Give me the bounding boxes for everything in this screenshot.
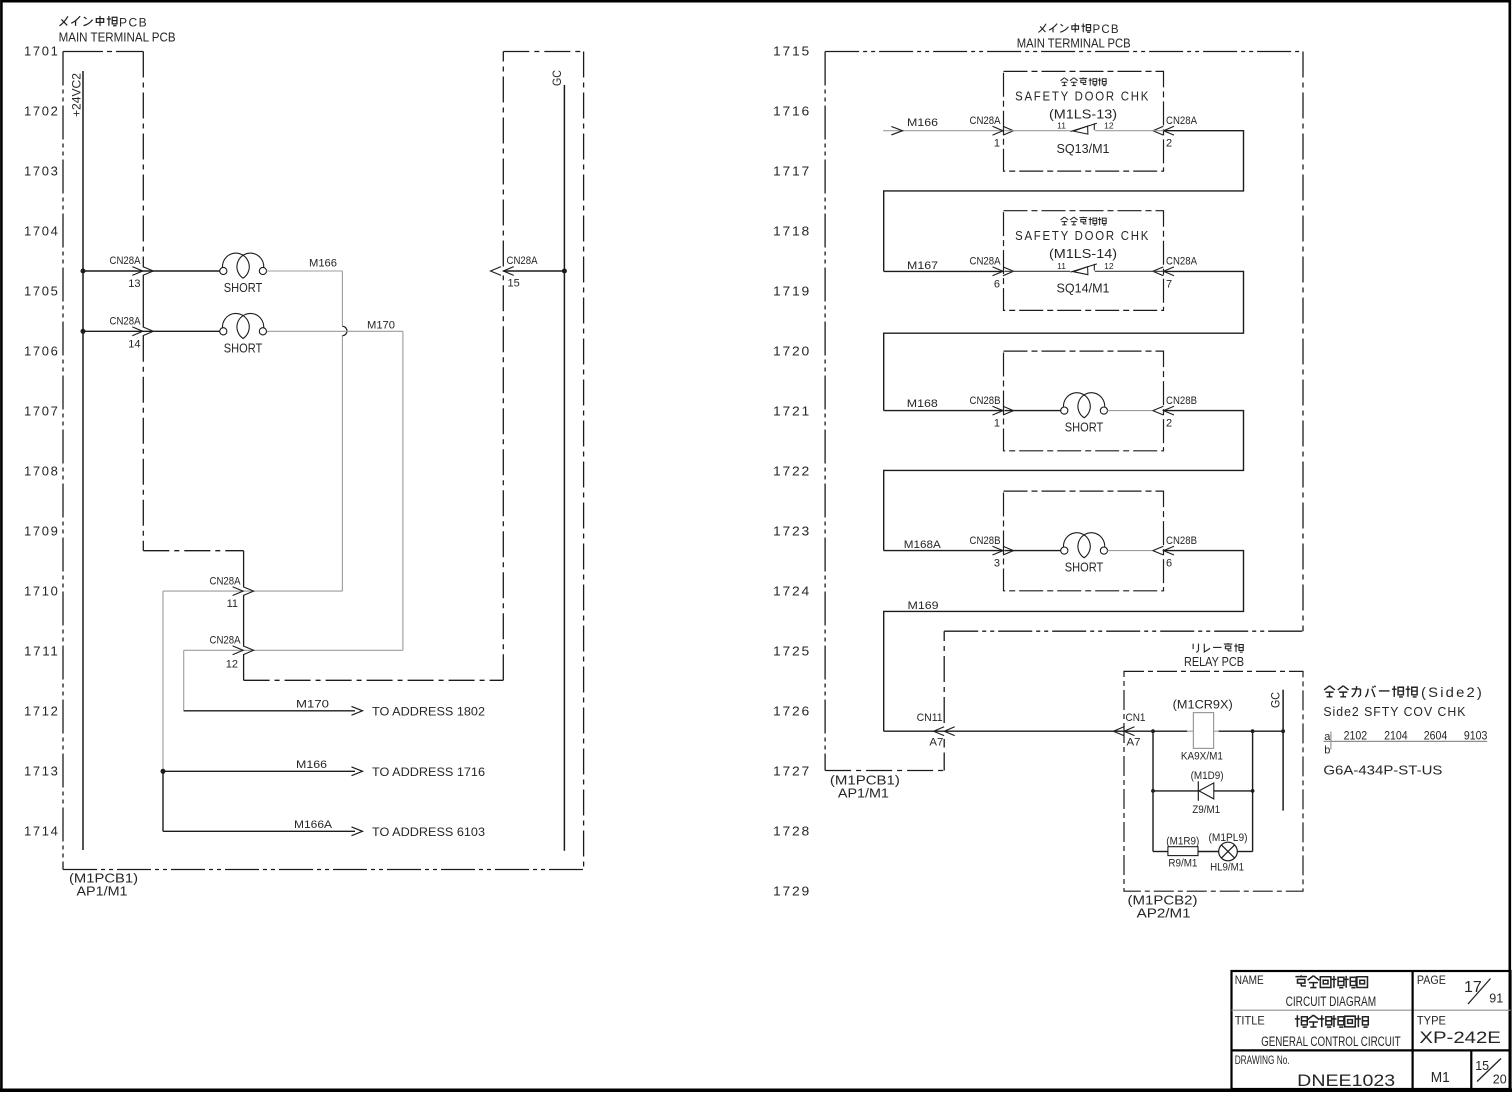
- svg-text:1702: 1702: [24, 105, 60, 119]
- svg-text:A7: A7: [1127, 737, 1141, 749]
- svg-text:1714: 1714: [24, 825, 60, 839]
- wire M170 to address 1802: [184, 710, 355, 712]
- svg-text:AP1/M1: AP1/M1: [838, 786, 889, 800]
- svg-text:2: 2: [1166, 418, 1172, 430]
- svg-text:CN28A: CN28A: [210, 635, 242, 647]
- title block: [1232, 971, 1511, 1089]
- svg-text:11: 11: [1057, 120, 1066, 130]
- label RELAY PCB: [1193, 644, 1198, 653]
- svg-text:1721: 1721: [773, 405, 811, 419]
- limit switch contact SQ14/M1 pins 11-12: [1005, 270, 1071, 272]
- wire relay left branch: [1152, 731, 1154, 851]
- svg-text:b: b: [1324, 744, 1330, 756]
- connector CN28B pin 6: [1153, 546, 1164, 555]
- svg-text:1707: 1707: [24, 405, 60, 419]
- svg-text:1719: 1719: [773, 285, 811, 299]
- svg-text:1704: 1704: [24, 225, 60, 239]
- wire hop M166 over M170: [342, 326, 347, 335]
- svg-text:CN28A: CN28A: [970, 115, 1002, 127]
- jumper SHORT: [1005, 550, 1061, 552]
- svg-text:SHORT: SHORT: [224, 281, 263, 295]
- PCB boundary M1PCB1 left (MAIN TERMINAL PCB): [63, 51, 143, 53]
- svg-text:M166A: M166A: [294, 819, 333, 831]
- wire M170 (gray) from SHORT2 to CN28A12: [267, 330, 403, 332]
- svg-text:1729: 1729: [773, 885, 811, 899]
- svg-text:12: 12: [1104, 120, 1114, 130]
- svg-text:2: 2: [1166, 138, 1172, 150]
- label MAIN TERMINAL PCB left: [59, 16, 67, 26]
- svg-text:M169: M169: [908, 600, 939, 612]
- svg-text:SHORT: SHORT: [224, 341, 263, 355]
- svg-text:SAFETY DOOR CHK: SAFETY DOOR CHK: [1015, 228, 1150, 243]
- svg-text:TO ADDRESS 1716: TO ADDRESS 1716: [372, 765, 485, 779]
- svg-text:9103: 9103: [1464, 728, 1488, 742]
- svg-text:12: 12: [1104, 261, 1114, 271]
- node GC / CN28A15: [562, 269, 567, 274]
- svg-text:1708: 1708: [24, 465, 60, 479]
- svg-text:M167: M167: [907, 260, 938, 272]
- svg-text:CN28A: CN28A: [1166, 115, 1198, 127]
- svg-text:SQ14/M1: SQ14/M1: [1057, 280, 1110, 295]
- svg-text:1713: 1713: [24, 765, 60, 779]
- svg-text:CN28B: CN28B: [1166, 535, 1197, 547]
- wire relay main row: [1124, 730, 1187, 732]
- svg-text:CN28A: CN28A: [110, 316, 142, 328]
- svg-text:CN28A: CN28A: [110, 255, 142, 267]
- svg-text:11: 11: [227, 598, 238, 610]
- svg-text:1710: 1710: [24, 585, 60, 599]
- svg-text:13: 13: [128, 278, 140, 290]
- wire M167 feed into SQ14: [884, 270, 1004, 272]
- svg-text:CN28A: CN28A: [210, 575, 242, 587]
- connector CN28A pin 15: [503, 270, 564, 272]
- svg-text:1728: 1728: [773, 825, 811, 839]
- svg-text:CN28B: CN28B: [970, 395, 1001, 407]
- jumper SHORT 2: [220, 328, 227, 335]
- wire M166A to address 6103: [162, 771, 164, 831]
- wire M166 (gray) from SHORT1 to CN28A11 to address rows: [267, 270, 343, 272]
- svg-text:PCB: PCB: [119, 16, 148, 30]
- wire +24VC2 to SHORT jumper 2: [83, 330, 220, 332]
- connector CN28A pin 11: [233, 587, 244, 596]
- svg-text:M170: M170: [367, 319, 395, 331]
- svg-text:2104: 2104: [1384, 728, 1408, 742]
- diode Z9/M1 (M1D9): [1197, 781, 1199, 801]
- svg-text:20: 20: [1493, 1072, 1507, 1086]
- wire SHORT4 return to M169: [884, 551, 1244, 732]
- svg-text:AP1/M1: AP1/M1: [77, 885, 128, 899]
- svg-text:CIRCUIT DIAGRAM: CIRCUIT DIAGRAM: [1286, 994, 1377, 1009]
- svg-text:HL9/M1: HL9/M1: [1210, 862, 1244, 874]
- node +24VC2 / CN28A13: [81, 269, 86, 274]
- svg-text:DRAWING No.: DRAWING No.: [1235, 1053, 1290, 1067]
- svg-text:1717: 1717: [773, 165, 811, 179]
- svg-text:CN28B: CN28B: [970, 535, 1001, 547]
- svg-text:M168: M168: [907, 398, 938, 410]
- svg-text:G6A-434P-ST-US: G6A-434P-ST-US: [1323, 764, 1442, 778]
- wire M168A feed into SHORT4: [884, 550, 1004, 552]
- jumper SHORT: [1005, 410, 1061, 412]
- svg-text:XP-242E: XP-242E: [1419, 1028, 1501, 1047]
- label MAIN TERMINAL PCB right: [1038, 24, 1046, 33]
- svg-text:7: 7: [1166, 278, 1172, 290]
- svg-text:1715: 1715: [773, 45, 811, 59]
- lamp HL9/M1 (M1PL9): [1219, 842, 1238, 861]
- wire SQ14 return to M168: [884, 271, 1244, 410]
- connector CN28A pin 6: [993, 267, 1004, 276]
- svg-text:PAGE: PAGE: [1417, 973, 1446, 987]
- svg-text:3: 3: [994, 558, 1000, 570]
- svg-text:GC: GC: [552, 70, 564, 86]
- jumper SHORT 4 box: [1004, 491, 1164, 591]
- svg-text:1711: 1711: [24, 645, 60, 659]
- svg-text:2604: 2604: [1424, 728, 1448, 742]
- connector CN28A pin 13: [132, 267, 143, 276]
- switch box SQ14/M1 (SAFETY DOOR CHK): [1004, 211, 1164, 311]
- svg-text:R9/M1: R9/M1: [1168, 858, 1197, 870]
- svg-text:6: 6: [994, 278, 1000, 290]
- svg-text:MAIN TERMINAL PCB: MAIN TERMINAL PCB: [1017, 37, 1131, 51]
- svg-text:(M1CR9X): (M1CR9X): [1173, 699, 1233, 711]
- jumper SHORT 1: [220, 267, 227, 274]
- wire diode row: [1153, 790, 1253, 792]
- svg-text:+24VC2: +24VC2: [72, 73, 84, 117]
- svg-text:6: 6: [1166, 558, 1172, 570]
- node relay row GC: [1281, 729, 1285, 733]
- svg-text:1716: 1716: [773, 105, 811, 119]
- svg-text:(M1PCB2): (M1PCB2): [1128, 893, 1198, 907]
- svg-text:PCB: PCB: [1093, 24, 1120, 36]
- svg-text:MAIN TERMINAL PCB: MAIN TERMINAL PCB: [59, 31, 176, 45]
- connector CN28A pin 12: [233, 646, 244, 655]
- svg-text:Z9/M1: Z9/M1: [1192, 804, 1220, 816]
- svg-text:1712: 1712: [24, 705, 60, 719]
- svg-text:12: 12: [226, 659, 238, 671]
- node relay row B: [1251, 729, 1255, 733]
- PCB boundary M1PCB2 RELAY PCB: [1124, 671, 1303, 891]
- svg-text:AP2/M1: AP2/M1: [1137, 906, 1191, 920]
- svg-text:(Side2): (Side2): [1421, 685, 1484, 700]
- svg-text:1726: 1726: [773, 705, 811, 719]
- svg-text:TO ADDRESS 1802: TO ADDRESS 1802: [372, 704, 485, 718]
- node +24VC2 / CN28A14: [81, 329, 86, 334]
- svg-text:SHORT: SHORT: [1065, 561, 1104, 575]
- connector CN28B pin 2: [1153, 406, 1164, 415]
- wire +24VC2 to SHORT jumper 1: [83, 270, 220, 272]
- svg-text:2102: 2102: [1344, 728, 1368, 742]
- connector CN28B pin 1: [993, 406, 1004, 415]
- label Side2 SFTY COV CHK: [1324, 686, 1335, 697]
- node address column right 1715-1729: [773, 45, 811, 899]
- svg-text:M166: M166: [907, 117, 938, 129]
- node diode right: [1251, 789, 1255, 793]
- node diode left: [1151, 789, 1155, 793]
- svg-text:CN11: CN11: [917, 712, 943, 724]
- wire M166 to address 1716: [163, 770, 355, 772]
- svg-text:CN1: CN1: [1126, 712, 1146, 724]
- connector CN28A pin 7: [1153, 267, 1164, 276]
- svg-text:(M1PCB1): (M1PCB1): [69, 872, 138, 886]
- resistor R9/M1 (M1R9): [1168, 847, 1198, 856]
- svg-text:M166: M166: [296, 759, 327, 771]
- jumper SHORT 3 box: [1004, 351, 1164, 451]
- svg-text:1701: 1701: [24, 45, 60, 59]
- svg-text:(M1PL9): (M1PL9): [1209, 832, 1248, 844]
- GC rail left: [563, 85, 565, 851]
- svg-text:RELAY PCB: RELAY PCB: [1184, 655, 1244, 669]
- svg-text:GC: GC: [1271, 692, 1283, 708]
- svg-text:KA9X/M1: KA9X/M1: [1181, 750, 1223, 762]
- svg-text:1: 1: [994, 418, 1000, 430]
- svg-text:M168A: M168A: [904, 539, 942, 551]
- wire M168 feed into SHORT3: [884, 410, 1004, 412]
- svg-text:1: 1: [994, 138, 1000, 150]
- svg-text:DNEE1023: DNEE1023: [1297, 1071, 1395, 1090]
- connector CN28A pin 2: [1153, 126, 1164, 135]
- relay coil KA9X/M1 (M1CR9X): [1193, 713, 1213, 749]
- +24VC2 power rail: [82, 71, 84, 850]
- svg-text:CN28A: CN28A: [507, 255, 539, 267]
- svg-text:1720: 1720: [773, 345, 811, 359]
- svg-text:15: 15: [508, 278, 520, 290]
- svg-text:TITLE: TITLE: [1235, 1014, 1265, 1028]
- connector CN28A pin 1: [993, 126, 1004, 135]
- svg-text:A7: A7: [929, 737, 943, 749]
- svg-text:SHORT: SHORT: [1065, 421, 1104, 435]
- wire M169 to CN11/CN1: [884, 730, 1124, 732]
- svg-text:14: 14: [128, 338, 140, 350]
- limit switch contact SQ13/M1 pins 11-12: [1005, 130, 1071, 132]
- svg-text:1725: 1725: [773, 645, 811, 659]
- svg-text:1703: 1703: [24, 165, 60, 179]
- PCB boundary M1PCB1 right (MAIN TERMINAL PCB): [825, 51, 1303, 53]
- svg-text:1709: 1709: [24, 525, 60, 539]
- connector CN28A pin 14: [132, 327, 143, 336]
- svg-text:M170: M170: [296, 698, 329, 710]
- svg-text:1727: 1727: [773, 765, 811, 779]
- svg-text:(M1D9): (M1D9): [1191, 770, 1224, 782]
- svg-text:17: 17: [1464, 979, 1482, 996]
- svg-text:CN28B: CN28B: [1166, 395, 1197, 407]
- svg-text:(M1LS-14): (M1LS-14): [1049, 247, 1117, 261]
- svg-text:CN28A: CN28A: [1166, 256, 1198, 268]
- svg-text:91: 91: [1489, 992, 1503, 1006]
- svg-text:TYPE: TYPE: [1417, 1014, 1446, 1028]
- svg-text:GENERAL CONTROL CIRCUIT: GENERAL CONTROL CIRCUIT: [1261, 1034, 1401, 1049]
- node relay row A: [1151, 729, 1155, 733]
- node address column left 1701-1714: [24, 45, 60, 839]
- connector CN11 pin A7: [934, 727, 945, 736]
- connector CN1 pin A7: [1113, 727, 1124, 736]
- wire SHORT3 return to M168A: [884, 411, 1244, 551]
- wire resistor-lamp row: [1153, 851, 1168, 853]
- svg-text:SAFETY DOOR CHK: SAFETY DOOR CHK: [1015, 89, 1150, 104]
- svg-text:1705: 1705: [24, 285, 60, 299]
- svg-text:11: 11: [1057, 261, 1066, 271]
- connector CN28B pin 3: [993, 546, 1004, 555]
- svg-text:TO ADDRESS 6103: TO ADDRESS 6103: [372, 825, 485, 839]
- svg-text:M1: M1: [1431, 1070, 1450, 1086]
- switch box SQ13/M1 (SAFETY DOOR CHK): [1004, 71, 1164, 171]
- wire SQ13 return to M167: [884, 131, 1244, 272]
- svg-text:1706: 1706: [24, 345, 60, 359]
- svg-text:CN28A: CN28A: [970, 256, 1002, 268]
- GC rail relay: [1282, 690, 1284, 811]
- svg-text:(M1R9): (M1R9): [1166, 835, 1199, 847]
- svg-text:SQ13/M1: SQ13/M1: [1057, 141, 1110, 156]
- wire M166 feed into SQ13: [883, 130, 1003, 132]
- svg-text:NAME: NAME: [1235, 973, 1264, 987]
- svg-text:1718: 1718: [773, 225, 811, 239]
- svg-text:1723: 1723: [773, 525, 811, 539]
- svg-text:Side2 SFTY COV CHK: Side2 SFTY COV CHK: [1323, 705, 1466, 719]
- svg-text:M166: M166: [309, 258, 337, 270]
- node M166 junction: [161, 769, 166, 774]
- svg-text:1724: 1724: [773, 585, 811, 599]
- wire relay right branch: [1252, 731, 1254, 851]
- svg-text:1722: 1722: [773, 465, 811, 479]
